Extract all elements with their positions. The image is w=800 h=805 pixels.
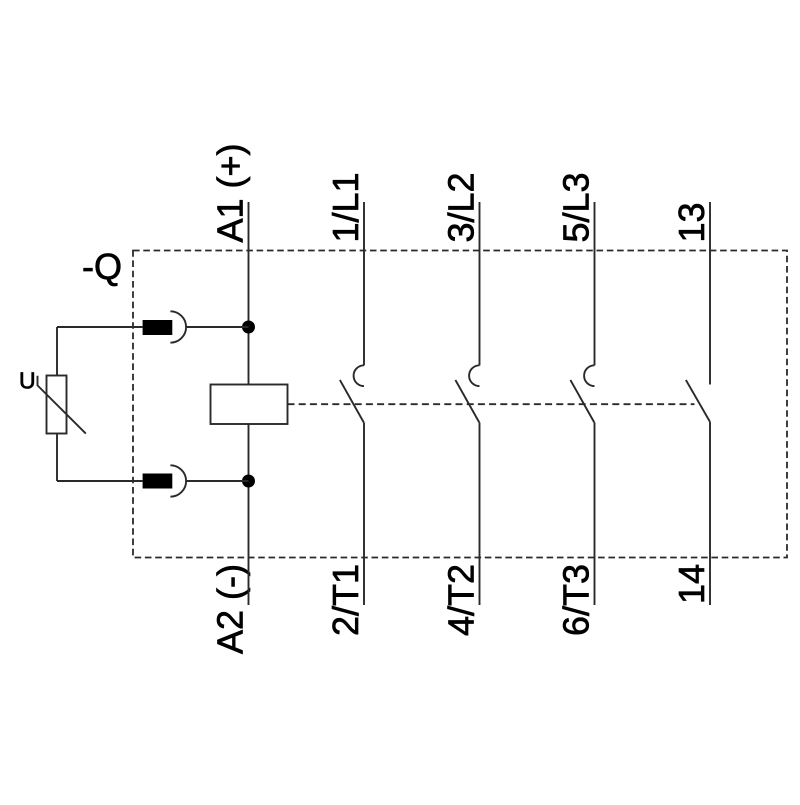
svg-text:2/T1: 2/T1 — [325, 564, 366, 636]
wire A1 terminal to coil — [248, 202, 250, 385]
svg-text:A1 (+): A1 (+) — [210, 143, 251, 242]
svg-text:A2 (-): A2 (-) — [210, 564, 251, 654]
svg-text:5/L3: 5/L3 — [556, 172, 597, 242]
pole 3 wire to terminal 6/T3 — [594, 423, 596, 606]
pole 1 moving contact (NO) — [340, 380, 364, 423]
wire socket to node A2 — [187, 480, 249, 482]
pole 2 moving contact (NO) — [455, 380, 479, 423]
auxiliary contact wire to terminal 14 — [709, 422, 711, 606]
wire varistor lower lead — [56, 434, 58, 482]
coil terminal socket arc A1 — [170, 311, 186, 342]
svg-text:4/T2: 4/T2 — [441, 564, 482, 636]
wire coil to A2 terminal — [248, 424, 250, 605]
coil -Q operating coil — [211, 385, 288, 425]
wire socket to node A1 — [187, 326, 249, 328]
wire bottom clamp lead (crosses enclosure) — [57, 480, 143, 482]
pole 3 fixed contact arc — [584, 365, 594, 386]
svg-text:13: 13 — [671, 202, 712, 242]
pole 1 wire to terminal 2/T1 — [363, 423, 365, 606]
svg-text:6/T3: 6/T3 — [556, 564, 597, 636]
wire varistor upper lead — [56, 327, 58, 376]
auxiliary contact wire from terminal 13 — [709, 202, 711, 385]
auxiliary moving contact (NO) — [686, 380, 710, 422]
pole 3 wire from terminal 5/L3 — [594, 202, 596, 365]
junction node A1/varistor — [242, 321, 255, 334]
svg-text:3/L2: 3/L2 — [441, 172, 482, 242]
wire top clamp lead (crosses enclosure) — [57, 326, 143, 328]
pole 2 wire to terminal 4/T2 — [479, 423, 481, 606]
contactor -Q dashed enclosure — [133, 251, 787, 558]
pole 2 wire from terminal 3/L2 — [479, 202, 481, 365]
pole 1 fixed contact arc — [354, 365, 364, 386]
varistor U (surge suppressor) body — [47, 376, 67, 434]
svg-text:14: 14 — [671, 564, 712, 604]
svg-text:U: U — [19, 368, 36, 394]
pole 3 moving contact (NO) — [570, 380, 594, 423]
varistor symbol stroke (tick + diagonal) — [38, 376, 86, 434]
coil terminal socket arc A2 — [170, 465, 186, 496]
pole 1 wire from terminal 1/L1 — [363, 202, 365, 365]
coil terminal clamp A2 (plug, black) — [143, 474, 173, 489]
junction node A2/varistor — [242, 475, 255, 488]
mechanical linkage (dashed) coil to contacts — [288, 403, 695, 405]
svg-text:-Q: -Q — [82, 246, 122, 287]
coil terminal clamp A1 (plug, black) — [143, 320, 173, 335]
pole 2 fixed contact arc — [469, 365, 479, 386]
svg-text:1/L1: 1/L1 — [325, 172, 366, 242]
